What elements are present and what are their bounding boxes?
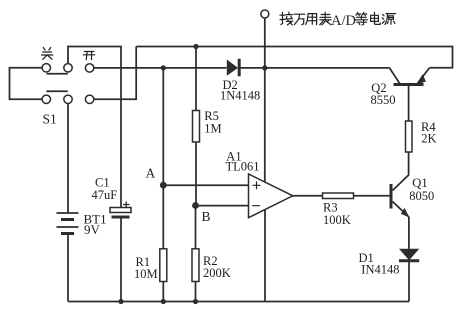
wire top-rail left segment from switch pole to C1: [68, 47, 121, 208]
svg-text:B: B: [202, 209, 211, 224]
wire R3 to Q1 base: [354, 195, 390, 197]
node A: [160, 182, 167, 189]
resistor R3: [323, 193, 354, 199]
transistor Q2 base bar: [394, 83, 424, 86]
wire op-amp output to R3: [293, 195, 323, 197]
wire R1 bottom lead: [162, 282, 164, 302]
terminal circle supply: [261, 10, 269, 18]
resistor R1: [160, 249, 167, 282]
glyph 源: [383, 14, 384, 15]
wire switch to battery BT1: [67, 104, 69, 214]
node junction bottom rail at C1: [118, 299, 123, 304]
op-amp plus input symbol: [253, 182, 260, 189]
wire Q1 emitter to D1: [408, 217, 410, 249]
svg-text:1M: 1M: [204, 121, 221, 135]
node junction bottom rail at R2: [193, 299, 198, 304]
node junction on top rail at R5: [193, 44, 198, 49]
glyph 接: [281, 13, 283, 25]
svg-text:A: A: [146, 166, 156, 181]
wire top row contact to D2 anode: [94, 67, 227, 69]
label 关 (off): [42, 48, 53, 60]
glyph 万: [294, 13, 305, 15]
wire node B to op-amp - input: [196, 205, 249, 207]
wire S1 left U link: [10, 68, 43, 100]
transistor Q2 emitter slant with arrow: [416, 68, 430, 85]
wire S1 bridge bottom row: [46, 90, 68, 92]
label 开 (on): [83, 52, 95, 60]
resistor R5: [193, 111, 200, 143]
svg-text:TL061: TL061: [226, 160, 260, 174]
svg-text:9V: 9V: [84, 222, 101, 237]
transistor Q1 emitter with arrow: [393, 202, 410, 218]
capacitor C1 plus sign: [124, 202, 130, 207]
svg-text:IN4148: IN4148: [361, 262, 399, 276]
glyph 电: [371, 15, 379, 21]
svg-text:2K: 2K: [421, 132, 436, 146]
wire D1 cathode to bottom rail: [408, 261, 410, 301]
switch S1 contact bottom 1: [42, 95, 50, 103]
diode D2: [227, 59, 239, 77]
wire terminal down to op-amp V+: [264, 18, 266, 182]
transistor Q1 base bar: [390, 184, 393, 209]
wire R2 bottom lead: [195, 282, 197, 302]
wire node A to op-amp + input: [163, 184, 248, 186]
glyph 用: [306, 14, 308, 25]
wire C1 to bottom rail: [120, 217, 122, 302]
switch S1 contact bottom 2: [64, 95, 72, 103]
wire R5 top lead: [195, 47, 197, 111]
switch S1 contact top 1: [42, 64, 50, 72]
wire op-amp V- to bottom rail: [264, 210, 266, 302]
svg-text:Q1: Q1: [412, 176, 427, 190]
capacitor C1 top plate: [110, 208, 131, 213]
wire bottom rail: [68, 301, 409, 303]
switch S1 contact top 3: [85, 64, 93, 72]
transistor Q1 collector: [393, 152, 409, 191]
diode D1: [399, 249, 419, 261]
wire battery negative to bottom rail: [67, 234, 69, 302]
svg-text:47uF: 47uF: [92, 188, 118, 202]
wire top rail right segment to Q2 emitter corner: [136, 47, 452, 68]
transistor Q2 left lead slant: [390, 68, 401, 84]
svg-text:8050: 8050: [409, 189, 434, 203]
wire D2 cathode to Q2: [238, 67, 390, 69]
op-amp minus input symbol: [253, 205, 260, 207]
node B: [192, 202, 199, 209]
glyph 等: [356, 12, 361, 15]
wire bottom row contact up to top rail: [94, 47, 136, 100]
wire S1 bridge top row: [47, 73, 68, 75]
switch S1 contact bottom 3: [85, 95, 93, 103]
svg-text:A/D: A/D: [331, 13, 356, 29]
capacitor C1 bottom plate: [112, 216, 130, 219]
switch S1 contact top 2: [64, 64, 72, 72]
node junction bottom rail at R1: [161, 299, 166, 304]
svg-text:10M: 10M: [134, 267, 158, 281]
svg-text:100K: 100K: [323, 213, 351, 227]
wire node-A column from D2 line down to R1: [162, 68, 164, 249]
node junction D2 cathode at terminal drop: [262, 65, 267, 70]
svg-text:1N4148: 1N4148: [220, 88, 260, 102]
wire R4 top to Q2: [408, 86, 410, 122]
svg-text:S1: S1: [43, 112, 57, 127]
resistor R4: [406, 121, 413, 152]
node junction D2 line at A column: [161, 65, 166, 70]
op-amp A1 triangle: [249, 174, 293, 218]
svg-text:8550: 8550: [371, 93, 396, 107]
battery BT1 plates: [57, 213, 79, 234]
wire node-B column down to R2: [195, 206, 197, 249]
resistor R2: [192, 249, 199, 282]
label 接万用表A/D等电源 supply note: [280, 12, 331, 25]
wire R5 bottom lead to node B: [195, 142, 197, 206]
svg-text:200K: 200K: [203, 266, 231, 280]
glyph 表: [324, 12, 326, 19]
